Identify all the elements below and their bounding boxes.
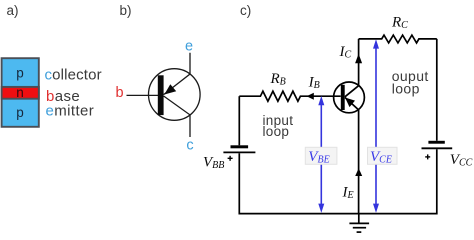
svg-text:RB: RB <box>270 71 286 88</box>
svg-text:IC: IC <box>339 44 352 61</box>
svg-text:loop: loop <box>263 124 290 139</box>
svg-text:VCC: VCC <box>450 152 473 169</box>
svg-text:c): c) <box>240 3 251 18</box>
svg-text:VBB: VBB <box>203 155 224 172</box>
svg-text:c: c <box>186 138 193 154</box>
svg-text:e: e <box>185 39 193 55</box>
svg-text:RC: RC <box>391 15 408 32</box>
svg-text:IB: IB <box>308 74 320 91</box>
svg-text:a): a) <box>7 3 19 18</box>
svg-text:IE: IE <box>342 185 354 202</box>
svg-text:p: p <box>16 66 24 81</box>
svg-text:b: b <box>115 85 123 101</box>
svg-text:b): b) <box>120 3 132 18</box>
svg-text:emitter: emitter <box>46 103 95 120</box>
svg-text:collector: collector <box>45 66 102 83</box>
svg-text:n: n <box>16 85 24 100</box>
svg-text:loop: loop <box>392 81 420 97</box>
svg-text:p: p <box>16 105 24 120</box>
